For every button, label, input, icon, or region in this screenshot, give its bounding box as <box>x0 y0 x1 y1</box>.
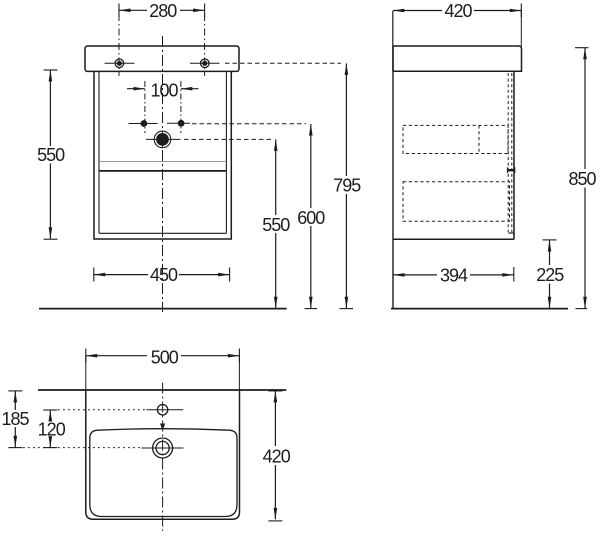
mounting dot right (100mm) <box>167 120 190 127</box>
svg-text:550: 550 <box>37 145 65 165</box>
svg-text:394: 394 <box>440 266 468 286</box>
cabinet front view outer <box>94 71 231 239</box>
svg-text:100: 100 <box>150 80 178 100</box>
dim 185 <box>1 391 29 448</box>
dotted leader faucet level plan <box>58 409 147 411</box>
dashed leader from right hole to 795 dim <box>225 62 341 64</box>
centerline front view <box>162 36 164 312</box>
dim 420 plan right <box>263 391 291 521</box>
extension dash-dot lines of 280 / faucet hole centerlines <box>119 14 205 76</box>
extension dash-dot lines of 100 dim <box>145 81 181 133</box>
extension line left of 420 <box>392 11 394 46</box>
faucet hole plan view <box>147 405 184 415</box>
upper drawer hidden box side view <box>403 125 508 153</box>
svg-text:185: 185 <box>1 409 29 429</box>
svg-text:225: 225 <box>536 265 564 285</box>
dim 795 <box>333 63 361 308</box>
cabinet front solid line side view <box>513 71 515 239</box>
svg-text:120: 120 <box>38 420 66 440</box>
dim 450 <box>94 265 230 285</box>
flow direction arrowhead plan view <box>160 424 165 431</box>
back wall line side view <box>392 46 394 309</box>
washbasin slab front view <box>85 46 239 71</box>
floor line under front view <box>39 308 287 310</box>
washbasin outline plan view <box>86 390 240 519</box>
dotted leader drain level plan <box>23 447 142 449</box>
dim 225 <box>536 240 564 308</box>
dim 120 <box>38 410 66 448</box>
dim 600 middle <box>297 124 325 309</box>
svg-text:600: 600 <box>297 208 325 228</box>
cabinet bottom side view <box>393 238 514 240</box>
lower drawer hidden box side view <box>403 182 510 222</box>
svg-text:280: 280 <box>149 1 177 21</box>
basin bowl plan view <box>90 429 237 517</box>
extension line right of 420 <box>520 11 522 47</box>
drawer divider lines front view <box>99 160 226 162</box>
washbasin slab side view <box>393 46 522 71</box>
dim 550 left <box>37 70 65 239</box>
dim 280 top <box>119 1 205 21</box>
svg-text:420: 420 <box>263 447 291 467</box>
svg-text:850: 850 <box>568 169 596 189</box>
centerline plan view <box>162 383 164 532</box>
dim 550 middle <box>262 139 290 308</box>
extension lines of 500 <box>86 356 240 390</box>
drain plan view <box>142 438 184 458</box>
wall line plan view <box>38 389 286 391</box>
drawer gap mark side view <box>507 167 515 173</box>
svg-text:795: 795 <box>333 176 361 196</box>
faucet hole right front <box>190 59 220 68</box>
svg-text:500: 500 <box>151 347 179 367</box>
cabinet front view inner walls <box>99 71 226 233</box>
dim 850 <box>568 48 596 309</box>
dim 500 plan view <box>86 347 240 367</box>
svg-text:450: 450 <box>150 265 178 285</box>
svg-text:420: 420 <box>444 1 472 21</box>
faucet hole left front <box>105 59 135 68</box>
dim 394 <box>393 266 514 286</box>
dashed leader from drain to 550 dim <box>184 138 271 140</box>
cabinet front bottom step <box>508 232 514 234</box>
svg-text:550: 550 <box>262 215 290 235</box>
dashed leader from dots to 600 dim <box>192 123 306 125</box>
dim 100 <box>127 80 199 100</box>
floor line under side view <box>391 308 568 310</box>
drain hole front view <box>146 131 181 148</box>
mounting dot left (100mm) <box>129 120 158 127</box>
hidden dashed front lines side view <box>508 73 512 232</box>
dim 420 side view top <box>393 1 522 21</box>
